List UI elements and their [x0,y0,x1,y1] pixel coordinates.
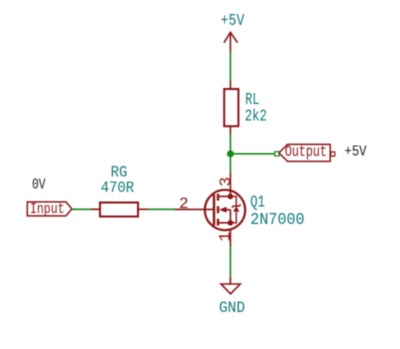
label +5V (net annotation) [345,144,367,161]
wire [229,52,231,81]
svg-text:3: 3 [217,177,235,187]
value 2N7000 [250,211,304,230]
wire [148,208,176,210]
power +5V [221,12,245,52]
resistor RL [224,81,238,135]
svg-text:Input: Input [30,201,65,218]
svg-text:2: 2 [179,195,189,213]
svg-text:Output: Output [285,143,327,161]
svg-text:+5V: +5V [345,144,367,161]
svg-text:1: 1 [217,232,235,242]
node output wire-end square [275,152,279,156]
pin 1 [217,232,235,242]
svg-text:2N7000: 2N7000 [250,211,304,230]
wire [230,153,275,155]
svg-text:+5V: +5V [221,12,245,31]
junction [227,150,234,157]
svg-text:GND: GND [219,299,245,317]
label Q1 [250,194,265,213]
wire [229,134,231,173]
wire [72,208,91,210]
label RL [245,91,259,110]
value 470R [101,179,135,197]
svg-text:0V: 0V [32,178,46,194]
label GND [219,299,245,317]
global label Input [27,201,72,218]
svg-text:470R: 470R [101,179,135,197]
resistor RG [91,203,148,217]
svg-text:2k2: 2k2 [245,108,267,127]
pin 2 [179,195,189,213]
value 2k2 [245,108,267,127]
pin 3 [217,177,235,187]
ground [221,277,240,294]
wire [229,247,231,278]
label 0V [32,178,46,194]
label RG [111,163,128,181]
global label Output [279,143,335,162]
transistor Q1 [175,173,245,247]
